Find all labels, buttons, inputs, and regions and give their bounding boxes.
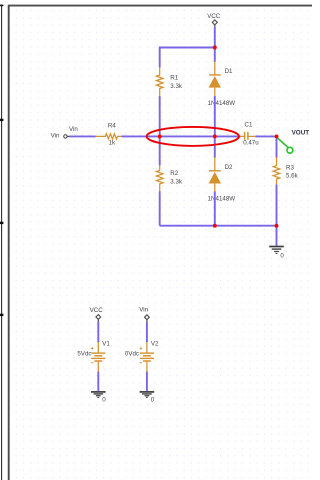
- ground 0 at V2: [140, 392, 155, 404]
- wire VCC to top rail: [214, 27, 216, 62]
- wire V1 to ground: [97, 372, 99, 391]
- svg-text:Vin: Vin: [139, 307, 148, 314]
- resistor R3: [273, 157, 298, 185]
- svg-text:3.3k: 3.3k: [170, 83, 183, 90]
- junction top rail: [213, 46, 217, 50]
- capacitor C1: [239, 122, 259, 147]
- voltage probe: [277, 138, 296, 153]
- svg-text:D2: D2: [225, 164, 233, 171]
- wire R1 to mid node: [159, 96, 161, 165]
- power symbol VCC at V1: [90, 307, 104, 323]
- svg-text:C1: C1: [245, 122, 253, 129]
- wire D2 to bottom rail: [214, 191, 216, 225]
- wire top rail: [160, 48, 215, 68]
- svg-text:R2: R2: [170, 170, 178, 177]
- svg-text:V2: V2: [151, 340, 159, 347]
- junction bottom rail R3: [275, 224, 279, 228]
- svg-text:Vin: Vin: [51, 133, 60, 140]
- svg-text:1k: 1k: [109, 140, 116, 147]
- svg-text:0.47u: 0.47u: [243, 140, 259, 147]
- wire D1 to mid node: [214, 96, 216, 158]
- wire rail to ground: [276, 226, 278, 246]
- wire R3 to bottom rail: [276, 185, 278, 226]
- svg-text:VCC: VCC: [90, 307, 104, 314]
- svg-text:R3: R3: [286, 164, 294, 171]
- svg-text:0: 0: [102, 396, 106, 403]
- svg-text:R4: R4: [108, 122, 116, 129]
- svg-text:3.3k: 3.3k: [170, 179, 183, 186]
- diode D2: [208, 157, 236, 202]
- wire R2 to bottom rail: [159, 191, 161, 225]
- wire C1 to VOUT node: [256, 135, 277, 137]
- junction VOUT node: [275, 134, 279, 138]
- highlight ellipse: [147, 127, 239, 146]
- ground 0 at V1: [91, 392, 106, 404]
- resistor R1: [156, 67, 183, 96]
- source V1: [77, 340, 110, 372]
- wire R4 to C1: [122, 135, 241, 137]
- source V2: [125, 340, 159, 372]
- diode D1: [208, 62, 236, 107]
- svg-text:1N4148W: 1N4148W: [208, 100, 236, 107]
- svg-text:D1: D1: [225, 68, 233, 75]
- port Vin: [51, 133, 70, 140]
- svg-text:V1: V1: [102, 340, 110, 347]
- svg-text:0: 0: [280, 253, 284, 260]
- svg-text:R1: R1: [170, 74, 178, 81]
- svg-text:Vin: Vin: [69, 126, 78, 133]
- wire VCC to V1: [97, 322, 99, 342]
- power symbol Vin at V2: [139, 307, 149, 323]
- junction bottom rail D2: [213, 224, 217, 228]
- svg-text:0: 0: [151, 396, 155, 403]
- svg-text:0Vdc: 0Vdc: [125, 350, 139, 357]
- svg-text:VCC: VCC: [207, 13, 221, 20]
- wire port to R4: [69, 135, 95, 137]
- wire VOUT node to R3: [276, 136, 278, 157]
- wire bottom rail: [160, 225, 277, 227]
- power symbol VCC: [207, 13, 221, 27]
- junction mid node left: [158, 134, 162, 138]
- resistor R4: [95, 122, 122, 146]
- svg-text:5.6k: 5.6k: [286, 173, 299, 180]
- svg-text:5Vdc: 5Vdc: [77, 350, 91, 357]
- wire V2 to ground: [146, 372, 148, 391]
- ground 0 right: [269, 247, 284, 260]
- resistor R2: [156, 165, 183, 192]
- svg-text:VOUT: VOUT: [292, 129, 310, 136]
- junction mid node right: [213, 134, 217, 138]
- wire Vin to V2: [146, 322, 148, 342]
- svg-text:1N4148W: 1N4148W: [208, 196, 236, 203]
